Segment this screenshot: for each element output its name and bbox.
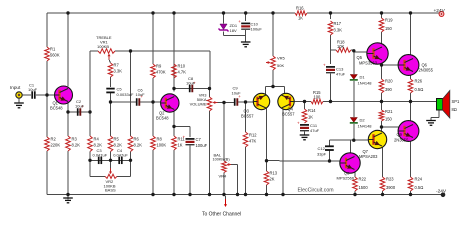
svg-text:8.2K: 8.2K bbox=[134, 143, 143, 148]
svg-text:1N4148: 1N4148 bbox=[358, 124, 373, 129]
svg-text:C7: C7 bbox=[196, 137, 202, 142]
svg-text:10uF: 10uF bbox=[136, 92, 146, 97]
svg-text:Input: Input bbox=[10, 85, 21, 90]
svg-text:470K: 470K bbox=[156, 70, 166, 75]
svg-text:100K: 100K bbox=[157, 143, 167, 148]
svg-text:+: + bbox=[238, 19, 241, 24]
svg-text:MPS2566: MPS2566 bbox=[337, 176, 355, 181]
svg-text:SP1: SP1 bbox=[452, 99, 460, 104]
svg-text:1N4148: 1N4148 bbox=[358, 81, 373, 86]
svg-text:R9: R9 bbox=[156, 64, 162, 69]
svg-text:VR5: VR5 bbox=[277, 56, 286, 61]
svg-text:R7: R7 bbox=[114, 63, 120, 68]
svg-text:10K: 10K bbox=[337, 44, 345, 49]
svg-text:2N3055: 2N3055 bbox=[419, 68, 434, 73]
svg-text:R21: R21 bbox=[385, 109, 393, 114]
svg-text:8.2K: 8.2K bbox=[114, 143, 123, 148]
svg-text:R2: R2 bbox=[51, 137, 57, 142]
svg-text:C12: C12 bbox=[318, 146, 326, 151]
svg-text:R12: R12 bbox=[249, 133, 257, 138]
svg-text:10uF: 10uF bbox=[75, 104, 85, 109]
svg-text:R13: R13 bbox=[270, 171, 278, 176]
svg-text:1500: 1500 bbox=[359, 185, 369, 190]
svg-text:1K: 1K bbox=[178, 143, 183, 148]
svg-text:4.7K: 4.7K bbox=[178, 70, 187, 75]
svg-text:VOLUME: VOLUME bbox=[190, 102, 207, 107]
svg-text:33pF: 33pF bbox=[317, 151, 327, 156]
svg-text:0.5Ω: 0.5Ω bbox=[415, 87, 424, 92]
svg-text:R22: R22 bbox=[359, 177, 367, 182]
svg-text:18V: 18V bbox=[230, 28, 237, 33]
svg-text:R3: R3 bbox=[72, 137, 78, 142]
svg-text:10uF: 10uF bbox=[186, 81, 196, 86]
svg-text:100uF: 100uF bbox=[196, 143, 208, 148]
svg-text:R19: R19 bbox=[385, 18, 393, 23]
svg-text:1K: 1K bbox=[308, 115, 313, 120]
svg-text:100uF: 100uF bbox=[251, 27, 263, 32]
svg-text:R17: R17 bbox=[334, 21, 342, 26]
svg-text:0.047uF: 0.047uF bbox=[93, 153, 108, 158]
svg-text:VR4: VR4 bbox=[219, 174, 228, 179]
svg-text:BC557: BC557 bbox=[282, 112, 295, 117]
svg-text:D1: D1 bbox=[360, 75, 366, 80]
svg-text:390: 390 bbox=[385, 87, 393, 92]
svg-text:R16: R16 bbox=[296, 6, 304, 11]
svg-text:2K: 2K bbox=[270, 177, 275, 182]
svg-text:10uF: 10uF bbox=[28, 87, 38, 92]
svg-text:R10: R10 bbox=[178, 64, 186, 69]
svg-text:3.3K: 3.3K bbox=[114, 69, 123, 74]
svg-text:R1: R1 bbox=[50, 47, 56, 52]
svg-text:150: 150 bbox=[385, 26, 393, 31]
svg-text:R6: R6 bbox=[134, 137, 140, 142]
svg-text:R20: R20 bbox=[385, 79, 393, 84]
svg-text:+: + bbox=[183, 135, 186, 140]
svg-text:3.3K: 3.3K bbox=[334, 28, 343, 33]
svg-text:BC548: BC548 bbox=[156, 116, 169, 121]
svg-text:47uF: 47uF bbox=[336, 72, 346, 77]
svg-text:3900: 3900 bbox=[386, 185, 396, 190]
svg-text:1K: 1K bbox=[298, 16, 303, 21]
svg-text:8.2K: 8.2K bbox=[72, 143, 81, 148]
svg-text:100KB: 100KB bbox=[97, 44, 109, 49]
svg-text:0.0033uF: 0.0033uF bbox=[117, 92, 134, 97]
svg-text:47K: 47K bbox=[249, 139, 257, 144]
svg-text:C5: C5 bbox=[117, 87, 123, 92]
svg-text:0.047uF: 0.047uF bbox=[113, 153, 128, 158]
svg-text:R4: R4 bbox=[94, 137, 100, 142]
svg-text:MPSA203: MPSA203 bbox=[359, 154, 378, 159]
svg-text:MPS3563: MPS3563 bbox=[359, 61, 378, 66]
svg-text:Q9: Q9 bbox=[397, 132, 403, 137]
svg-text:50K: 50K bbox=[277, 63, 284, 68]
svg-text:2N3055: 2N3055 bbox=[394, 138, 409, 143]
svg-text:8.2K: 8.2K bbox=[94, 143, 103, 148]
svg-text:-24V: -24V bbox=[436, 189, 447, 195]
svg-text:+: + bbox=[297, 121, 300, 126]
svg-text:8Ω: 8Ω bbox=[452, 107, 457, 112]
svg-text:Q5: Q5 bbox=[357, 55, 363, 60]
svg-text:R23: R23 bbox=[386, 177, 394, 182]
svg-text:47uF: 47uF bbox=[310, 128, 320, 133]
svg-text:100: 100 bbox=[314, 95, 322, 100]
svg-text:ElecCircuit.com: ElecCircuit.com bbox=[298, 188, 334, 194]
svg-text:10uF: 10uF bbox=[232, 90, 242, 95]
svg-text:BC557: BC557 bbox=[241, 114, 254, 119]
svg-text:R14: R14 bbox=[308, 108, 316, 113]
svg-text:+: + bbox=[323, 63, 326, 68]
svg-text:R24: R24 bbox=[415, 177, 423, 182]
svg-text:560K: 560K bbox=[50, 53, 60, 58]
svg-text:R5: R5 bbox=[114, 137, 120, 142]
svg-text:150: 150 bbox=[385, 117, 393, 122]
svg-text:R26: R26 bbox=[415, 79, 423, 84]
svg-text:100KM(B): 100KM(B) bbox=[213, 157, 231, 161]
svg-text:D2: D2 bbox=[360, 118, 366, 123]
svg-text:R8: R8 bbox=[157, 137, 163, 142]
svg-text:BASS: BASS bbox=[105, 188, 116, 193]
svg-text:+24V: +24V bbox=[434, 8, 446, 14]
svg-text:BC548: BC548 bbox=[50, 106, 63, 111]
svg-text:To Other Channel: To Other Channel bbox=[202, 212, 241, 218]
svg-text:220K: 220K bbox=[51, 143, 61, 148]
svg-text:0.5Ω: 0.5Ω bbox=[415, 185, 424, 190]
